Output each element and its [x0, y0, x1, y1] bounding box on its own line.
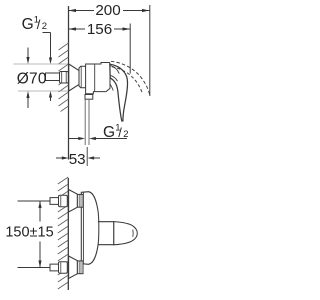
svg-text:G: G [103, 124, 115, 141]
mixer body (side view) [86, 63, 110, 94]
svg-text:G: G [22, 16, 34, 33]
svg-text:200: 200 [95, 2, 120, 19]
svg-text:Ø70: Ø70 [17, 71, 47, 88]
extension line for 200 [149, 5, 151, 96]
top escutcheon cone (plan) [69, 190, 78, 213]
shower outlet collar [85, 95, 93, 100]
bottom supply thread pipe [50, 264, 59, 271]
mixer body (plan view) [81, 192, 99, 265]
dimension 150±15 arrowheads [38, 201, 41, 268]
G1/2 leader (top inlet) [43, 33, 51, 62]
svg-text:/: / [118, 125, 122, 140]
outlet pipe centerline extension [86, 147, 88, 166]
top supply hex nut [59, 195, 68, 206]
raised handle dashed arc B [112, 67, 142, 93]
dimension 156 line [69, 28, 131, 30]
svg-text:2: 2 [42, 21, 47, 32]
cartridge stub (plan view) [98, 222, 114, 245]
top ribbed nut [77, 194, 83, 207]
dimension 200 line [69, 10, 150, 12]
dimension 53 arrows [56, 157, 63, 159]
svg-text:150±15: 150±15 [5, 225, 53, 241]
lever handle (rest position, side view) [110, 64, 128, 121]
bottom ribbed nut [77, 261, 83, 274]
dimension 200 arrowheads [69, 9, 150, 12]
body plate edge line [82, 192, 84, 264]
handle knob (plan view) [114, 222, 138, 245]
svg-text:2: 2 [123, 129, 128, 140]
bottom supply: center extension line [18, 267, 51, 269]
inlet thread pipe behind wall (side view) [46, 73, 60, 81]
top supply: center extension line [18, 200, 51, 202]
raised handle dashed arc A [111, 61, 150, 96]
svg-text:156: 156 [87, 21, 112, 38]
union nut (side view) [79, 66, 87, 87]
dimension 150±15 line [39, 201, 41, 268]
extension line for 156 [129, 24, 131, 74]
wall hatching (side view) [59, 43, 69, 112]
G1/2 outlet arrows [69, 138, 81, 140]
body cap joint line [94, 64, 96, 91]
inlet hex nut behind wall (side view) [60, 72, 69, 84]
handle neck shadow line [110, 85, 113, 91]
svg-text:/: / [37, 17, 41, 32]
shower outlet pipe [85, 99, 89, 145]
diameter 70 extension lines [14, 64, 69, 91]
knob face dash [132, 230, 134, 237]
dimension 156 arrowheads [69, 27, 131, 30]
wall face line (plan view) [67, 178, 69, 290]
handle inner shell curves [110, 66, 119, 74]
svg-text:53: 53 [69, 151, 86, 168]
bottom supply hex nut [59, 262, 68, 273]
leader lower arrow (points up at fitting) [50, 94, 52, 101]
bottom escutcheon cone (plan) [69, 256, 78, 279]
diameter 70 arrows [27, 48, 29, 109]
escutcheon cone (side view) [69, 64, 79, 91]
wall face line (side view) [68, 6, 70, 160]
wall hatching (plan view) [58, 177, 69, 289]
top supply thread pipe [50, 198, 59, 205]
